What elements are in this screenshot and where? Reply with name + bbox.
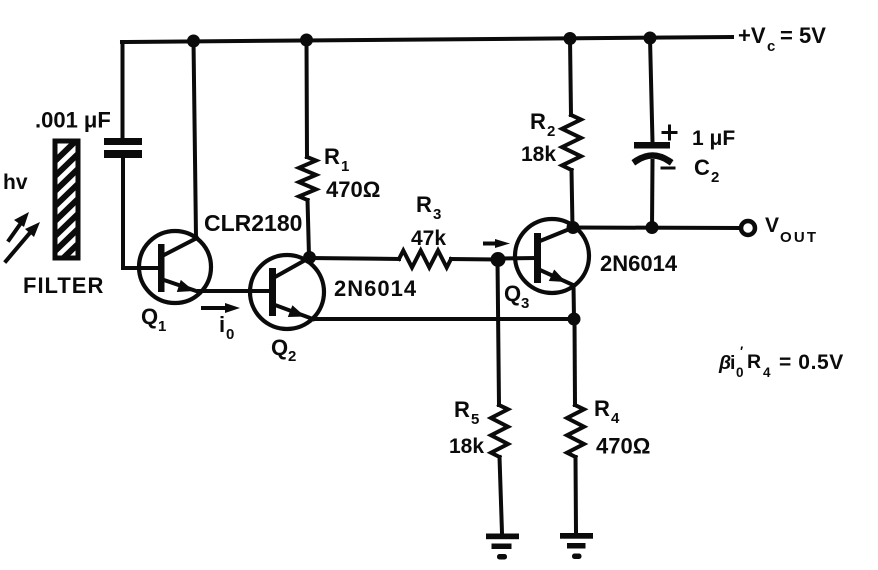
- wire: node to Q3 base: [497, 256, 534, 261]
- svg-text:0: 0: [226, 326, 234, 343]
- terminal: Vout open circle: [741, 221, 755, 235]
- label Vout: [765, 214, 818, 246]
- label equation beta*i0'*R4 = 0.5V: [718, 344, 844, 380]
- wire: R2 bottom to collector node: [572, 170, 573, 227]
- resistor R2 zigzag: [562, 115, 581, 170]
- arrow: light ray 1 into filter: [9, 212, 29, 240]
- svg-text:OUT: OUT: [780, 229, 818, 246]
- svg-text:= 0.5V: = 0.5V: [779, 351, 844, 374]
- label +Vc = 5V supply: [738, 23, 826, 55]
- svg-text:3: 3: [521, 295, 529, 312]
- label Q3: [504, 281, 529, 312]
- wire: rail down to C1 top plate: [121, 42, 125, 138]
- wire: R4 to ground: [574, 457, 579, 532]
- junction: R1 / Q2 collector / R3 node: [303, 251, 316, 264]
- resistor R5 zigzag: [491, 405, 508, 457]
- svg-text:i: i: [730, 352, 735, 374]
- svg-text:R: R: [324, 144, 340, 169]
- arrow: base current into Q3: [485, 239, 510, 248]
- svg-text:0: 0: [736, 365, 744, 380]
- label C2: [694, 155, 719, 186]
- svg-text:R: R: [454, 397, 470, 422]
- svg-text:2N6014: 2N6014: [334, 276, 417, 301]
- svg-text:+V: +V: [738, 23, 766, 48]
- svg-text:2N6014: 2N6014: [600, 251, 678, 276]
- wire: junction to R3: [310, 258, 399, 259]
- svg-text:R: R: [747, 351, 761, 373]
- wire: emitter node down to R4: [573, 319, 578, 405]
- label R4: [594, 396, 620, 427]
- svg-text:V: V: [765, 214, 779, 237]
- svg-text:4: 4: [763, 365, 771, 380]
- capacitor C2 (1 uF) plates: [634, 142, 670, 161]
- optical FILTER element (hatched): [51, 135, 82, 285]
- wire: +Vc top supply rail: [122, 37, 732, 42]
- svg-text:CLR2180: CLR2180: [204, 210, 302, 236]
- wire: rail down to C2: [650, 38, 653, 142]
- junction: rail / Q1 collector: [187, 35, 200, 48]
- svg-text:Q: Q: [271, 335, 288, 360]
- wire: Q3 emitter down to node: [572, 285, 577, 319]
- svg-text:3: 3: [433, 206, 441, 223]
- wire: Q1 emitter to Q2 base: [199, 289, 270, 293]
- svg-text:470Ω: 470Ω: [326, 177, 380, 202]
- svg-text:R: R: [594, 396, 610, 421]
- label Q1: [141, 304, 166, 335]
- svg-text:2: 2: [288, 348, 296, 365]
- svg-text:FILTER: FILTER: [23, 273, 104, 298]
- arrow: i0 current direction: [203, 303, 240, 313]
- svg-text:5: 5: [471, 411, 479, 428]
- svg-text:R: R: [530, 109, 546, 134]
- svg-text:hv: hv: [3, 171, 28, 194]
- capacitor C1 (.001 uF) plates: [104, 138, 142, 158]
- transistor Q3 (2N6014): [515, 219, 589, 293]
- junction: C2 / output wire: [646, 221, 659, 234]
- phototransistor Q1 (CLR2180): [139, 231, 211, 303]
- junction: rail / C2: [644, 32, 657, 45]
- wire: R5 to ground: [500, 457, 503, 533]
- arrow: light ray 2 into filter: [6, 222, 40, 261]
- transistor Q2 (2N6014): [250, 255, 324, 329]
- junction: R2 / Q3 collector / output node: [567, 221, 580, 234]
- svg-text:4: 4: [611, 410, 620, 427]
- label - polarity of C2: [662, 167, 674, 170]
- junction: Q3 base / R3 / R5 node: [491, 252, 506, 267]
- svg-text:Q: Q: [504, 281, 521, 306]
- resistor R3 zigzag: [399, 251, 451, 268]
- wire: R1 bottom to collector junction: [308, 200, 310, 256]
- label Q2: [271, 335, 296, 365]
- svg-text:= 5V: = 5V: [780, 23, 826, 48]
- svg-text:47k: 47k: [411, 227, 446, 250]
- label R2: [530, 109, 555, 140]
- svg-text:2: 2: [711, 169, 719, 186]
- svg-text:C: C: [694, 155, 710, 180]
- label + polarity of C2: [663, 126, 676, 139]
- resistor R4 zigzag: [567, 405, 584, 457]
- wire: Q3 base node down to R5: [498, 260, 500, 405]
- svg-text:R: R: [416, 192, 432, 217]
- svg-text:18k: 18k: [449, 435, 484, 458]
- wire: R3 to Q3 base node: [451, 257, 496, 262]
- wire: output node to Vout terminal: [573, 226, 739, 231]
- label i0 current: [219, 312, 234, 343]
- wire: rail down to R2: [570, 38, 571, 115]
- svg-text:1 μF: 1 μF: [692, 127, 735, 150]
- svg-text:′: ′: [740, 344, 743, 359]
- junction: rail / R1: [300, 34, 313, 47]
- label R3: [416, 192, 441, 223]
- svg-text:Q: Q: [141, 304, 158, 329]
- junction: rail / R2: [564, 32, 577, 45]
- svg-text:1: 1: [158, 318, 166, 335]
- junction: Q2/Q3 emitters / R4 node: [568, 313, 581, 326]
- ground for R5: [486, 534, 519, 560]
- wire: Q2 emitter to Q3 emitter node: [313, 317, 574, 321]
- svg-text:i: i: [219, 312, 225, 337]
- wire: C2 bottom to output node: [650, 161, 655, 228]
- svg-text:470Ω: 470Ω: [596, 434, 650, 459]
- svg-text:18k: 18k: [521, 143, 556, 166]
- ground for R4: [560, 533, 593, 559]
- label R1: [324, 144, 349, 175]
- wire: rail down to R1: [305, 40, 310, 157]
- svg-text:1: 1: [341, 158, 349, 175]
- label R5: [454, 397, 479, 428]
- svg-text:2: 2: [547, 123, 555, 140]
- wire: rail down to Q1 collector: [194, 41, 197, 237]
- svg-text:.001 μF: .001 μF: [35, 108, 111, 133]
- svg-text:c: c: [767, 38, 775, 55]
- wire: C1 bottom to Q1 base: [123, 158, 156, 268]
- resistor R1 zigzag: [299, 157, 316, 200]
